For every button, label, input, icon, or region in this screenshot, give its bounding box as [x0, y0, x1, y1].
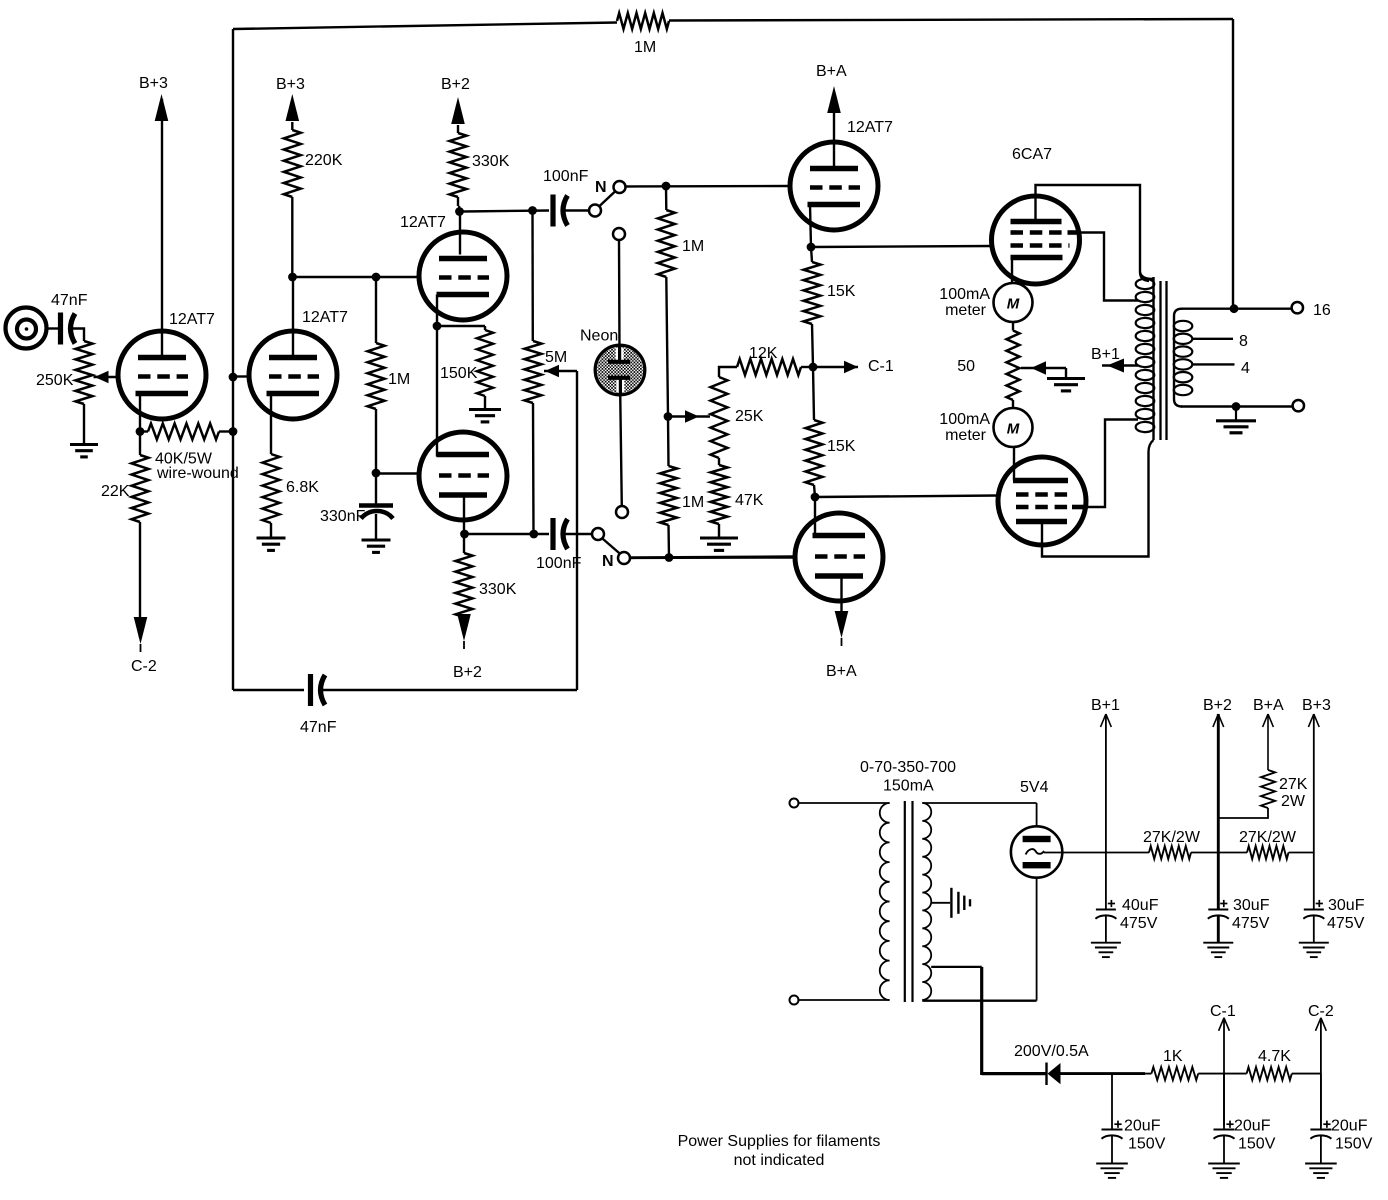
svg-text:250K: 250K	[36, 372, 74, 389]
svg-text:12AT7: 12AT7	[169, 311, 215, 328]
svg-text:12AT7: 12AT7	[400, 214, 446, 231]
svg-text:B+3: B+3	[276, 76, 305, 93]
svg-text:4.7K: 4.7K	[1258, 1048, 1291, 1065]
svg-text:5M: 5M	[545, 349, 567, 366]
svg-text:wire-wound: wire-wound	[156, 465, 239, 482]
svg-text:Neon: Neon	[580, 328, 618, 345]
svg-text:475V: 475V	[1232, 915, 1270, 932]
svg-text:100nF: 100nF	[536, 555, 582, 572]
svg-text:B+1: B+1	[1091, 346, 1120, 363]
svg-text:47nF: 47nF	[51, 292, 88, 309]
svg-text:B+A: B+A	[1253, 697, 1284, 714]
svg-text:N: N	[595, 179, 607, 196]
svg-text:meter: meter	[945, 302, 987, 319]
svg-text:150K: 150K	[440, 365, 478, 382]
svg-text:150V: 150V	[1238, 1136, 1276, 1153]
svg-text:B+2: B+2	[1203, 697, 1232, 714]
svg-text:220K: 220K	[305, 152, 343, 169]
svg-text:C-1: C-1	[868, 358, 894, 375]
svg-text:B+2: B+2	[441, 76, 470, 93]
svg-text:30uF: 30uF	[1328, 897, 1365, 914]
svg-text:22K: 22K	[101, 483, 130, 500]
svg-text:M: M	[1007, 296, 1020, 313]
svg-text:50: 50	[957, 358, 975, 375]
svg-text:12K: 12K	[749, 345, 778, 362]
svg-text:475V: 475V	[1120, 915, 1158, 932]
svg-text:475V: 475V	[1327, 915, 1365, 932]
svg-text:47nF: 47nF	[300, 719, 337, 736]
svg-text:not indicated: not indicated	[734, 1152, 825, 1169]
svg-text:15K: 15K	[827, 283, 856, 300]
svg-text:2W: 2W	[1281, 793, 1306, 810]
svg-text:N: N	[602, 553, 614, 570]
svg-text:1M: 1M	[388, 371, 410, 388]
svg-text:6CA7: 6CA7	[1012, 146, 1052, 163]
svg-text:27K/2W: 27K/2W	[1239, 829, 1297, 846]
svg-text:40uF: 40uF	[1122, 897, 1159, 914]
svg-text:C-2: C-2	[131, 658, 157, 675]
svg-text:20uF: 20uF	[1234, 1118, 1271, 1135]
svg-text:25K: 25K	[735, 408, 764, 425]
svg-text:30uF: 30uF	[1233, 897, 1270, 914]
svg-text:1M: 1M	[682, 238, 704, 255]
svg-text:27K/2W: 27K/2W	[1143, 829, 1201, 846]
svg-text:47K: 47K	[735, 492, 764, 509]
svg-text:15K: 15K	[827, 438, 856, 455]
svg-text:20uF: 20uF	[1124, 1118, 1161, 1135]
svg-text:12AT7: 12AT7	[302, 309, 348, 326]
svg-text:8: 8	[1239, 333, 1248, 350]
svg-text:B+2: B+2	[453, 664, 482, 681]
svg-text:B+3: B+3	[1302, 697, 1331, 714]
svg-text:C-2: C-2	[1308, 1003, 1334, 1020]
svg-text:C-1: C-1	[1210, 1003, 1236, 1020]
svg-text:100mA: 100mA	[939, 286, 990, 303]
svg-text:20uF: 20uF	[1331, 1118, 1368, 1135]
svg-text:B+3: B+3	[139, 75, 168, 92]
svg-text:Power Supplies for filaments: Power Supplies for filaments	[678, 1133, 881, 1150]
svg-text:0-70-350-700: 0-70-350-700	[860, 759, 956, 776]
svg-text:5V4: 5V4	[1020, 779, 1049, 796]
svg-text:100mA: 100mA	[939, 411, 990, 428]
svg-text:330nF: 330nF	[320, 508, 366, 525]
svg-text:4: 4	[1241, 360, 1250, 377]
svg-text:1K: 1K	[1163, 1048, 1183, 1065]
svg-text:1M: 1M	[634, 39, 656, 56]
svg-text:B+1: B+1	[1091, 697, 1120, 714]
svg-text:150V: 150V	[1128, 1136, 1166, 1153]
svg-text:B+A: B+A	[826, 663, 857, 680]
svg-text:100nF: 100nF	[543, 168, 589, 185]
svg-text:12AT7: 12AT7	[847, 119, 893, 136]
svg-text:B+A: B+A	[816, 63, 847, 80]
svg-text:150V: 150V	[1335, 1136, 1373, 1153]
svg-text:330K: 330K	[472, 153, 510, 170]
svg-text:150mA: 150mA	[883, 778, 934, 795]
svg-text:1M: 1M	[682, 494, 704, 511]
svg-text:16: 16	[1313, 302, 1331, 319]
svg-text:meter: meter	[945, 427, 987, 444]
svg-text:M: M	[1007, 421, 1020, 438]
svg-text:200V/0.5A: 200V/0.5A	[1014, 1043, 1089, 1060]
svg-text:330K: 330K	[479, 581, 517, 598]
svg-text:27K: 27K	[1279, 776, 1308, 793]
svg-text:6.8K: 6.8K	[286, 479, 319, 496]
